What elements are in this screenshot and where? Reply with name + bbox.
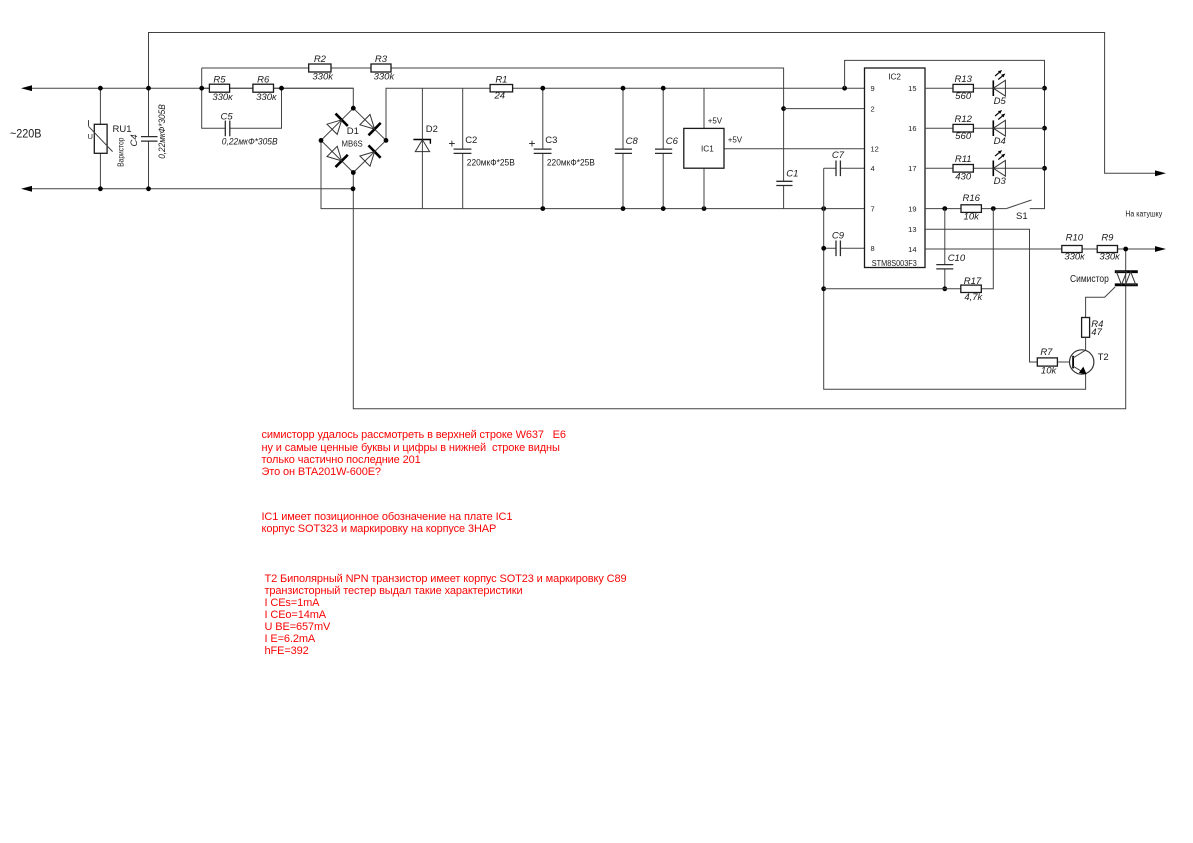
svg-text:4: 4 (871, 164, 875, 173)
junction dots DC rail (540, 86, 847, 91)
label R9 (1101, 233, 1114, 244)
arrow output upper (на катушку) (1155, 170, 1166, 176)
label 24 of R1 (494, 91, 506, 102)
svg-text:560: 560 (955, 91, 972, 102)
resistor R1 (490, 85, 512, 92)
wire pin 19 row (925, 208, 1006, 210)
label U of varistor (88, 132, 93, 141)
resistor R9 (1097, 246, 1117, 253)
wire IC1 input pin (703, 88, 705, 128)
svg-text:R5: R5 (213, 74, 226, 85)
svg-text:+: + (448, 136, 455, 150)
label C10 (948, 253, 966, 264)
resistor R11 (953, 165, 973, 173)
wire R17 row (824, 209, 994, 289)
label R12 (954, 114, 972, 125)
label 47 of R4 (1091, 327, 1102, 338)
svg-text:S1: S1 (1016, 211, 1028, 222)
label 330k of R2 (312, 71, 334, 82)
junction dots ground rail (540, 206, 826, 211)
wire R5-R6 segment (202, 87, 354, 89)
svg-text:330к: 330к (256, 92, 277, 103)
resistor R4 (1082, 318, 1090, 338)
wire bridge right vertex to DC rail (386, 88, 865, 140)
label C6 (666, 136, 679, 147)
LED D4 emission arrows (995, 110, 1005, 120)
transistor T2 base bar (1072, 356, 1074, 369)
svg-text:330к: 330к (1064, 252, 1085, 263)
wire D2 branch (421, 88, 423, 208)
label R1 (495, 74, 507, 85)
svg-text:R1: R1 (495, 74, 507, 85)
label R11 (955, 154, 972, 165)
svg-text:IC2: IC2 (888, 73, 901, 82)
label 330к of R6 (256, 92, 277, 103)
label 330k of R3 (374, 71, 396, 82)
label +5V above IC1 (708, 116, 723, 125)
wire pin row D3 (925, 167, 1045, 169)
LED D3 emission arrows (995, 150, 1005, 160)
junction dot zero-cross to pin2 (781, 106, 786, 111)
svg-text:4,7k: 4,7k (964, 292, 983, 303)
svg-text:12: 12 (871, 145, 879, 154)
bridge rectifier D1 edges (321, 108, 386, 172)
svg-text:47: 47 (1091, 327, 1102, 338)
label R3 (375, 54, 388, 65)
svg-text:7: 7 (871, 204, 875, 213)
annotation red text block (262, 429, 566, 478)
svg-text:C1: C1 (786, 169, 798, 180)
capacitor C8 plates (615, 149, 632, 153)
label 430 of R11 (955, 171, 972, 182)
capacitor C4 (141, 88, 158, 189)
svg-text:R17: R17 (964, 276, 982, 287)
label C2 (465, 135, 477, 146)
zener diode D2 (413, 140, 430, 152)
svg-text:13: 13 (908, 225, 916, 234)
label 4,7k of R17 (964, 292, 983, 303)
label IC1 (701, 145, 714, 154)
svg-text:330к: 330к (212, 92, 233, 103)
svg-text:430: 430 (955, 171, 972, 182)
label + of C3 (528, 136, 535, 150)
capacitor C3 branch (542, 88, 544, 208)
wire ground branch vertical (824, 168, 1086, 389)
resistor R13 (953, 84, 973, 92)
label IC2 (888, 73, 901, 82)
label C5 (221, 112, 234, 123)
svg-text:R12: R12 (954, 114, 972, 125)
junction dots AC left (98, 86, 151, 191)
switch S1 lever (1006, 200, 1031, 209)
wire pin 14 output row (925, 248, 1156, 250)
transistor T2 emitter stroke (1073, 366, 1087, 374)
junction dot R16 left (942, 206, 947, 211)
label 560 of R13 (955, 91, 972, 102)
capacitor C2 branch (462, 88, 464, 208)
capacitor C10 branch (944, 209, 946, 289)
wire triac gate to R4 (1086, 287, 1116, 318)
svg-text:+: + (528, 136, 535, 150)
node R5 left (199, 86, 204, 91)
wire top link to output arrow (149, 33, 1157, 174)
svg-text:9: 9 (871, 84, 875, 93)
capacitor C9 (824, 241, 865, 257)
svg-text:8: 8 (871, 244, 875, 253)
label R7 (1040, 347, 1053, 358)
annotation red text block (265, 573, 627, 657)
LED D3 (993, 160, 1005, 176)
capacitor C10 plates (936, 265, 953, 269)
arrow AC input upper (21, 85, 32, 91)
svg-text:C5: C5 (221, 112, 234, 123)
resistor R2 (309, 64, 331, 72)
svg-text:14: 14 (908, 245, 916, 254)
svg-text:+5V: +5V (728, 135, 743, 144)
svg-text:R10: R10 (1066, 233, 1084, 244)
label R17 (964, 276, 982, 287)
label 330к of R10 (1064, 252, 1085, 263)
svg-text:R6: R6 (257, 74, 270, 85)
label R16 (962, 193, 980, 204)
wire lower AC line ~220V (31, 188, 353, 190)
svg-text:Симистор: Симистор (1070, 273, 1109, 285)
label RU1 (113, 124, 132, 135)
svg-text:D5: D5 (994, 96, 1007, 107)
svg-text:T2: T2 (1098, 352, 1109, 363)
junction dot C10 bottom (942, 286, 947, 291)
label 220мкФ*25В of C2 (467, 158, 515, 169)
label MB6S (342, 139, 363, 148)
wire pin row D4 (925, 127, 1045, 129)
label R10 (1066, 233, 1084, 244)
svg-text:C8: C8 (626, 136, 639, 147)
label 10k of R7 (1041, 365, 1058, 376)
wire varistor RU1 branch (99, 88, 101, 189)
svg-text:330k: 330k (374, 71, 396, 82)
svg-text:R9: R9 (1101, 233, 1114, 244)
junction dot R16 right (991, 206, 996, 211)
svg-text:10k: 10k (964, 211, 981, 222)
capacitor C6 plates (655, 149, 672, 153)
resistor R5 (209, 84, 229, 92)
label Симистор (1070, 273, 1109, 285)
label STM8S003F3 (872, 259, 917, 268)
capacitor C7 (824, 161, 865, 177)
svg-text:24: 24 (494, 91, 506, 102)
label +5V at IC1 output (728, 135, 743, 144)
svg-text:C6: C6 (666, 136, 679, 147)
label R4 (1091, 319, 1103, 330)
transistor T2 collector stroke (1073, 350, 1086, 358)
wire R2-R3 zero-cross line (202, 68, 784, 209)
wire bridge bottom vertex down and bottom rail (353, 173, 1125, 409)
label 330к of R5 (212, 92, 233, 103)
wire upper AC line ~220V (31, 88, 353, 108)
LED D5 emission arrows (995, 70, 1005, 80)
svg-text:19: 19 (908, 204, 916, 213)
bridge diode top-right (360, 115, 381, 136)
label D5 (994, 96, 1007, 107)
resistor R17 (961, 285, 982, 292)
resistor R10 (1062, 246, 1082, 253)
varistor RU1 body (89, 120, 113, 153)
bridge diode bottom-right (360, 145, 381, 166)
svg-text:0,22мкФ*305В: 0,22мкФ*305В (222, 137, 278, 148)
svg-text:220мкФ*25В: 220мкФ*25В (547, 158, 595, 169)
svg-text:560: 560 (955, 131, 972, 142)
svg-text:+5V: +5V (708, 116, 723, 125)
wire IC1 ground pin (703, 168, 705, 208)
junction dot triac top (1123, 247, 1128, 252)
svg-text:C7: C7 (832, 150, 845, 161)
svg-text:0,22мкФ*305В: 0,22мкФ*305В (157, 104, 168, 159)
svg-text:U: U (88, 132, 93, 141)
arrow AC input lower (21, 186, 32, 192)
capacitor C3 plates (534, 149, 552, 153)
capacitor C8 branch (622, 88, 624, 208)
label 560 of R12 (955, 131, 972, 142)
label 10k of R16 (964, 211, 981, 222)
svg-text:C10: C10 (948, 253, 966, 264)
label C4 (vertical italic) (129, 134, 140, 146)
label S1 (1016, 211, 1028, 222)
svg-text:STM8S003F3: STM8S003F3 (872, 259, 917, 268)
label 0,22мкФ*305В of C5 (222, 137, 278, 148)
svg-text:330k: 330k (312, 71, 334, 82)
junction dots ground branch (821, 246, 826, 291)
svg-text:R2: R2 (314, 54, 327, 65)
wire R7 to T2 base (1057, 361, 1073, 363)
arrow output lower (на катушку) (1155, 246, 1166, 252)
svg-text:D3: D3 (994, 176, 1007, 187)
svg-text:На катушку: На катушку (1125, 210, 1162, 219)
capacitor C2 plates (454, 149, 472, 153)
wire LED anode rail (845, 60, 1045, 208)
wire pin row D5 (925, 87, 1045, 89)
svg-text:330к: 330к (1099, 252, 1120, 263)
svg-text:10k: 10k (1041, 365, 1058, 376)
label R6 (257, 74, 270, 85)
wire pin 13 to R7 (925, 229, 1037, 362)
node R6 right (279, 86, 284, 91)
svg-text:R13: R13 (954, 74, 972, 85)
wire bridge left vertex to ground rail (321, 140, 865, 208)
bridge vertex dots (319, 106, 389, 175)
wire R4 to T2 collector (1085, 337, 1087, 350)
resistor R12 (953, 124, 973, 132)
svg-text:17: 17 (908, 164, 916, 173)
svg-text:IC1: IC1 (701, 145, 714, 154)
wire IC1 +5V output to pin 12 (724, 148, 865, 150)
svg-text:MB6S: MB6S (342, 139, 363, 148)
label C9 (832, 230, 845, 241)
label R13 (954, 74, 972, 85)
capacitor C1 plates (776, 181, 792, 185)
svg-text:2: 2 (871, 104, 875, 113)
label На катушку (1125, 210, 1162, 219)
label T2 (1098, 352, 1109, 363)
regulator IC1 box (684, 128, 724, 168)
label ~220B (10, 129, 42, 141)
label R5 (213, 74, 226, 85)
svg-text:R16: R16 (962, 193, 980, 204)
transistor T2 body (1070, 350, 1094, 374)
svg-text:15: 15 (908, 84, 916, 93)
label C1 (786, 169, 798, 180)
svg-text:C9: C9 (832, 230, 845, 241)
svg-text:220мкФ*25В: 220мкФ*25В (467, 158, 515, 169)
label + of C2 (448, 136, 455, 150)
microcontroller IC2 box (865, 68, 926, 268)
bridge diode top-left (327, 114, 348, 135)
resistor R6 (253, 84, 274, 92)
label D4 (994, 136, 1006, 147)
annotation red text block (262, 511, 513, 535)
label 0,22мкФ*305В of C4 (vertical italic) (157, 104, 168, 159)
svg-text:~220В: ~220В (10, 129, 42, 141)
LED D4 (993, 120, 1005, 136)
resistor R7 (1037, 358, 1057, 366)
label R2 (314, 54, 327, 65)
IC2 pin numbers (871, 84, 917, 254)
label D2 (426, 124, 438, 135)
junction dots LED rail (1042, 86, 1047, 171)
label Варистор (vertical) (116, 137, 125, 167)
label C3 (545, 135, 557, 146)
triac (симистор) symbol (1115, 272, 1138, 285)
resistor R16 (961, 205, 981, 213)
capacitor C5 plates (225, 121, 230, 137)
svg-text:D2: D2 (426, 124, 438, 135)
wire pin2 branch (784, 108, 865, 110)
svg-text:Варистор: Варистор (116, 137, 125, 167)
wire C5 loop (202, 68, 282, 128)
label C7 (832, 150, 845, 161)
svg-text:R3: R3 (375, 54, 388, 65)
svg-text:C3: C3 (545, 135, 557, 146)
svg-text:R11: R11 (955, 154, 972, 165)
junction dot AC2-bridge (351, 186, 356, 191)
svg-text:R7: R7 (1040, 347, 1053, 358)
bridge diode bottom-left (327, 146, 348, 167)
svg-text:D1: D1 (347, 126, 359, 137)
capacitor C6 branch (662, 88, 664, 208)
label D3 (994, 176, 1007, 187)
svg-text:C2: C2 (465, 135, 477, 146)
label 330к of R9 (1099, 252, 1120, 263)
label 220мкФ*25В of C3 (547, 158, 595, 169)
resistor R3 (371, 64, 391, 72)
svg-text:C4: C4 (129, 134, 140, 146)
svg-text:D4: D4 (994, 136, 1006, 147)
label C8 (626, 136, 639, 147)
svg-text:16: 16 (908, 124, 916, 133)
svg-text:RU1: RU1 (113, 124, 132, 135)
label D1 (347, 126, 359, 137)
LED D5 (993, 80, 1005, 96)
